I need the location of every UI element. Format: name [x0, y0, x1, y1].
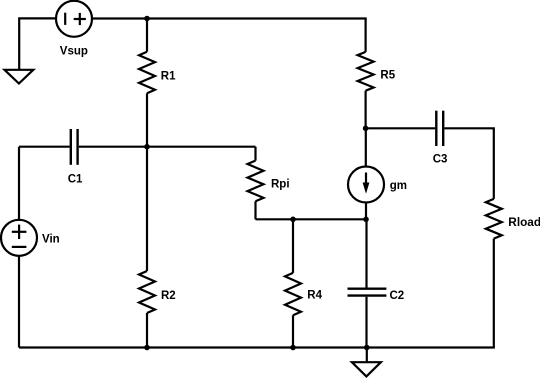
wire bottom rail: [19, 346, 495, 348]
wire from C2 to bottom rail: [365, 297, 367, 348]
wire from gm to base rail node: [365, 203, 367, 220]
wire top rail from Vsup to R5 branch: [92, 17, 367, 19]
node at C2 / ground / bottom rail: [364, 345, 370, 351]
svg-text:R5: R5: [380, 70, 395, 82]
resistor Rpi: [248, 147, 264, 220]
capacitor C1: [71, 129, 78, 165]
wire mid rail from C1 to Rpi branch: [79, 146, 256, 148]
node at Rpi / R4 base rail: [290, 217, 296, 223]
resistor R1: [139, 19, 155, 147]
wire stub to ground: [366, 348, 368, 362]
node at top rail / R1: [144, 16, 150, 22]
node at R4 / bottom rail: [290, 345, 296, 351]
resistor R4: [285, 219, 301, 347]
resistor R5: [358, 19, 374, 129]
node at R5 / C3 / gm: [363, 126, 369, 132]
current source gm: [348, 167, 384, 203]
svg-text:R2: R2: [161, 290, 176, 302]
voltage source Vin: [1, 220, 37, 256]
capacitor C2: [348, 289, 387, 296]
svg-text:Vin: Vin: [42, 234, 60, 246]
svg-text:R4: R4: [307, 290, 322, 302]
wire from C3 to Rload: [444, 128, 493, 199]
voltage source Vsup: [56, 1, 92, 37]
wire top-left from Vsup to ground drop: [19, 18, 56, 69]
resistor Rload: [486, 199, 502, 348]
svg-text:C2: C2: [390, 290, 405, 302]
wire collector rail from R5 node to C3: [366, 127, 436, 129]
svg-text:Rpi: Rpi: [271, 179, 290, 191]
svg-text:C1: C1: [68, 174, 83, 186]
svg-text:R1: R1: [161, 71, 176, 83]
node at C1 / R1 / R2 / Rpi junction: [144, 144, 150, 150]
wire from gm node down to C2: [365, 219, 367, 288]
wire from Vin down to bottom rail: [18, 256, 20, 348]
ground (left, below Vsup minus terminal): [5, 70, 34, 84]
resistor R2: [139, 147, 155, 348]
wire from R5 node down to gm: [365, 128, 367, 166]
wire mid rail left of C1: [19, 146, 70, 148]
node at R2 / bottom rail: [144, 345, 150, 351]
svg-text:C3: C3: [433, 154, 448, 166]
gm arrow head: [363, 183, 370, 194]
node at gm / base rail: [363, 217, 369, 223]
svg-text:Rload: Rload: [508, 215, 540, 229]
svg-text:Vsup: Vsup: [60, 46, 88, 58]
wire left drop from C1 to Vin: [18, 147, 20, 220]
wire base rail from Rpi to gm: [256, 218, 367, 220]
capacitor C3: [436, 111, 443, 146]
ground (bottom, at C2 / output return): [352, 362, 381, 376]
svg-text:gm: gm: [390, 180, 407, 192]
